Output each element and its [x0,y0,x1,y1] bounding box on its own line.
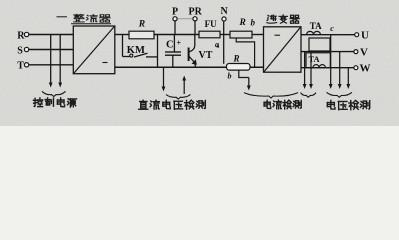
svg-text:R: R [138,20,145,30]
svg-text:N: N [221,6,229,17]
svg-text:S: S [17,45,23,56]
svg-text:FU: FU [205,19,217,29]
svg-text:R: R [17,30,25,41]
svg-text:b: b [228,72,232,81]
svg-text:TA: TA [309,54,321,64]
svg-text:b: b [251,18,256,28]
svg-text:T: T [17,61,24,72]
svg-text:PR: PR [189,7,203,18]
svg-text:c: c [330,24,334,33]
svg-text:TA: TA [310,21,322,31]
svg-text:U: U [361,30,369,42]
svg-text:R: R [239,18,246,28]
svg-text:KM: KM [127,45,145,56]
svg-text:C: C [166,40,174,51]
svg-text:W: W [360,63,371,75]
svg-text:VT: VT [199,50,213,61]
svg-text:R: R [233,54,240,64]
svg-text:P: P [172,7,178,18]
svg-text:V: V [360,47,368,59]
svg-text:+: + [177,39,182,48]
